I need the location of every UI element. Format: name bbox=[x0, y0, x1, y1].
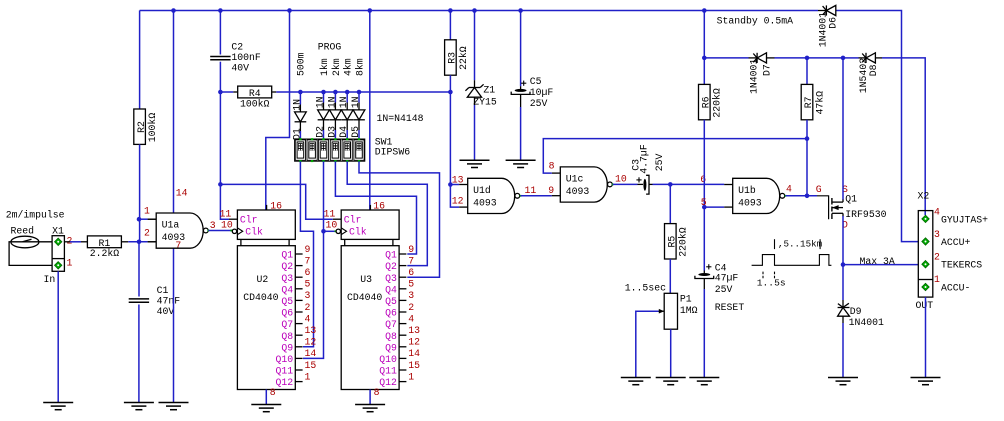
node diode columns on prog row bbox=[298, 90, 303, 95]
svg-text:D7: D7 bbox=[762, 64, 773, 76]
wire D7 to R7 node bbox=[775, 57, 808, 59]
svg-text:ZY15: ZY15 bbox=[473, 97, 497, 108]
svg-text:1N5402: 1N5402 bbox=[858, 58, 869, 93]
svg-text:1N: 1N bbox=[350, 96, 361, 108]
wire node to U1b pin 5 bbox=[704, 206, 724, 208]
wire P1 bottom to ground bbox=[670, 329, 672, 377]
wire Clr bus to U3 Clr pin 11 bbox=[220, 184, 332, 219]
svg-text:14: 14 bbox=[176, 187, 188, 198]
svg-text:6: 6 bbox=[700, 174, 706, 185]
wire rail to U1a pin 14 bbox=[173, 11, 175, 214]
pin U2 16 stub bbox=[266, 205, 268, 210]
svg-text:D8: D8 bbox=[868, 64, 879, 76]
svg-text:7: 7 bbox=[408, 255, 414, 266]
svg-text:Q8: Q8 bbox=[385, 331, 397, 342]
svg-text:R7: R7 bbox=[803, 96, 814, 108]
wire node to D7 bbox=[704, 57, 748, 59]
wire sw6 to U3 Q3 bbox=[359, 161, 440, 277]
pin U2 Q4 bbox=[295, 288, 302, 290]
svg-text:25V: 25V bbox=[530, 98, 548, 109]
svg-text:TEKERCS: TEKERCS bbox=[941, 260, 982, 271]
svg-text:4093: 4093 bbox=[162, 232, 186, 243]
wire rail to Z1 bbox=[474, 11, 476, 81]
svg-text:1N4001: 1N4001 bbox=[817, 12, 828, 47]
transistor Q1 IRF9530 P-MOSFET bbox=[817, 196, 829, 219]
pin U3 16 stub bbox=[369, 205, 371, 210]
ground Z1 bbox=[460, 159, 490, 161]
ground P1 wiper bbox=[621, 377, 651, 379]
wire node to U3 Clk bbox=[324, 230, 337, 232]
wire sw4 to U3 Q1 bbox=[335, 161, 416, 254]
svg-text:6: 6 bbox=[408, 267, 414, 278]
svg-text:Q5: Q5 bbox=[385, 296, 397, 307]
wire sw1 to U2 Q9 bbox=[300, 161, 313, 346]
IC U2 CD4040 header bbox=[237, 210, 295, 239]
svg-text:C4: C4 bbox=[715, 262, 727, 273]
pin U3 Q4 bbox=[399, 288, 406, 290]
svg-text:Q3: Q3 bbox=[281, 273, 293, 284]
wire drain node down to D9 bbox=[842, 265, 844, 300]
pin U3 Q8 bbox=[399, 334, 406, 336]
svg-text:ACCU+: ACCU+ bbox=[941, 237, 971, 248]
svg-text:R3: R3 bbox=[447, 52, 458, 64]
wire node to R7 bbox=[806, 58, 808, 85]
wire node to R6 bbox=[703, 58, 705, 85]
wire X1 pin1 to ground bbox=[57, 271, 59, 402]
pin P1 wiper arrow bbox=[659, 310, 665, 312]
node U1d pin13 bbox=[448, 182, 453, 187]
diode D6 1N4001 bbox=[818, 10, 826, 12]
svg-text:X1: X1 bbox=[52, 226, 64, 237]
connector X1 bbox=[52, 236, 64, 272]
pin U3 Q7 bbox=[399, 323, 406, 325]
pin X2-2 bbox=[922, 261, 929, 268]
wire C5 to ground bbox=[520, 107, 522, 160]
svg-text:40V: 40V bbox=[157, 306, 175, 317]
svg-text:13: 13 bbox=[408, 325, 420, 336]
potentiometer P1 1M bbox=[664, 293, 677, 329]
pin U3 8 stub / ground bbox=[369, 390, 371, 405]
ground U1a bbox=[159, 402, 189, 404]
svg-text:D5: D5 bbox=[350, 126, 361, 138]
diode D3 1N4148 bbox=[334, 92, 336, 103]
ground C5 bbox=[506, 159, 536, 161]
svg-text:Q10: Q10 bbox=[275, 354, 293, 365]
svg-text:Q12: Q12 bbox=[379, 377, 397, 388]
svg-text:D6: D6 bbox=[828, 17, 839, 29]
diode D7 1N4001 bbox=[749, 57, 758, 59]
svg-text:DIPSW6: DIPSW6 bbox=[375, 147, 410, 158]
wire to Q1 source node bbox=[807, 57, 843, 59]
pin U2 Q1 bbox=[295, 253, 302, 255]
svg-text:RESET: RESET bbox=[715, 302, 745, 313]
ground C1 bbox=[124, 402, 154, 404]
svg-text:2m/impulse: 2m/impulse bbox=[6, 210, 65, 221]
svg-text:2.2kΩ: 2.2kΩ bbox=[90, 248, 120, 259]
connector X2 bbox=[918, 211, 933, 298]
resistor R5 220k bbox=[665, 224, 677, 259]
svg-text:4: 4 bbox=[408, 313, 414, 324]
wire node down to C4 bbox=[703, 207, 705, 270]
svg-text:12: 12 bbox=[408, 337, 420, 348]
switch SW1 DIPSW6 bbox=[295, 139, 365, 161]
svg-text:Q11: Q11 bbox=[379, 366, 397, 377]
svg-text:25V: 25V bbox=[715, 284, 733, 295]
wire R7 down to feedback node bbox=[806, 120, 808, 139]
wire reed left lead loop to X1 pin1 bbox=[9, 242, 52, 266]
wire R6 down to U1b pin 5 node bbox=[703, 120, 705, 207]
node R4/C2 bbox=[218, 90, 223, 95]
svg-text:4093: 4093 bbox=[738, 197, 762, 208]
wire VCC top rail bbox=[140, 10, 818, 12]
svg-text:CD4040: CD4040 bbox=[347, 292, 382, 303]
svg-text:Q1: Q1 bbox=[281, 250, 293, 261]
svg-text:Max 3A: Max 3A bbox=[860, 256, 895, 267]
pin U3 Q1 bbox=[399, 253, 406, 255]
wire D9 to ground bbox=[842, 323, 844, 378]
svg-text:GYUJTAS+: GYUJTAS+ bbox=[941, 214, 988, 225]
wire Q1 source up to standby node bbox=[842, 58, 844, 200]
svg-text:Q1: Q1 bbox=[845, 194, 857, 205]
svg-text:47µF: 47µF bbox=[715, 273, 739, 284]
svg-text:Q12: Q12 bbox=[275, 377, 293, 388]
node C3/R5 bbox=[668, 182, 673, 187]
svg-text:2: 2 bbox=[305, 302, 311, 313]
IC U3 CD4040 header bbox=[341, 210, 399, 239]
svg-text:Q11: Q11 bbox=[275, 366, 293, 377]
diode D1 1N4148 bbox=[299, 92, 301, 105]
diode Z1 ZY15 zener bbox=[474, 80, 476, 87]
svg-text:U3: U3 bbox=[360, 274, 372, 285]
reed switch S1 bbox=[11, 236, 39, 248]
svg-text:2: 2 bbox=[934, 252, 940, 263]
svg-text:Q6: Q6 bbox=[281, 308, 293, 319]
svg-text:Q7: Q7 bbox=[385, 319, 397, 330]
svg-text:1N4001: 1N4001 bbox=[749, 59, 760, 94]
pin U2 Q2 bbox=[295, 265, 302, 267]
wire R1 to U1a pin 2 bbox=[128, 241, 147, 243]
svg-text:D2: D2 bbox=[315, 126, 326, 138]
wire C1 to ground bbox=[138, 305, 140, 403]
svg-text:4: 4 bbox=[934, 206, 940, 217]
pin U3 Q12 bbox=[399, 381, 406, 383]
svg-text:500m: 500m bbox=[295, 52, 306, 76]
svg-text:4093: 4093 bbox=[566, 186, 590, 197]
pin U3 Q3 bbox=[399, 276, 406, 278]
svg-text:1: 1 bbox=[408, 371, 414, 382]
node U1b out/gate bbox=[805, 194, 810, 199]
svg-text:40V: 40V bbox=[231, 63, 249, 74]
svg-text:Q5: Q5 bbox=[281, 296, 293, 307]
resistor R7 47k bbox=[801, 84, 813, 119]
svg-text:9: 9 bbox=[305, 244, 311, 255]
svg-text:ACCU-: ACCU- bbox=[941, 282, 970, 293]
svg-text:8km: 8km bbox=[354, 58, 365, 76]
svg-text:Q4: Q4 bbox=[385, 284, 397, 295]
node Clr bus bbox=[218, 182, 223, 187]
svg-text:D4: D4 bbox=[338, 126, 349, 138]
wire rail left end down to R2 bbox=[139, 11, 141, 110]
svg-text:1: 1 bbox=[934, 274, 940, 285]
node rail junctions bbox=[171, 8, 176, 13]
wire node to D8 bbox=[843, 57, 859, 59]
resistor R4 100k bbox=[233, 91, 237, 93]
svg-text:1MΩ: 1MΩ bbox=[680, 305, 698, 316]
wire to U1d pin 13 bbox=[450, 184, 459, 186]
pin X2-4 bbox=[922, 215, 929, 222]
svg-text:U1b: U1b bbox=[738, 185, 756, 196]
wire U1c output to C3 bbox=[612, 184, 614, 186]
resistor R2 100k bbox=[134, 109, 146, 144]
svg-text:1..5sec: 1..5sec bbox=[625, 282, 666, 293]
svg-text:1N: 1N bbox=[326, 96, 337, 108]
capacitor C1 47nF bbox=[129, 298, 149, 300]
svg-text:220kΩ: 220kΩ bbox=[712, 88, 723, 118]
svg-text:10µF: 10µF bbox=[530, 87, 554, 98]
IC U3 CD4040 body bbox=[341, 246, 399, 390]
wire C2 to R4 node bbox=[219, 62, 221, 92]
diode D9 1N4001 flyback bbox=[842, 300, 844, 308]
pin U3 Q9 bbox=[399, 346, 406, 348]
svg-text:12: 12 bbox=[305, 337, 317, 348]
svg-text:2: 2 bbox=[144, 228, 150, 239]
pin U2 Q11 bbox=[295, 369, 302, 371]
pin U3 Q5 bbox=[399, 299, 406, 301]
svg-text:4km: 4km bbox=[343, 58, 354, 76]
svg-text:2: 2 bbox=[408, 302, 414, 313]
wire node down to C1 bbox=[138, 242, 140, 297]
node U1a pin1 junction bbox=[137, 217, 142, 222]
svg-text:14: 14 bbox=[408, 348, 420, 359]
ground P1 bbox=[656, 377, 686, 379]
wire rail to C2 bbox=[219, 11, 221, 55]
svg-text:OUT: OUT bbox=[916, 300, 934, 311]
pin U2 Q7 bbox=[295, 323, 302, 325]
wire Q1 drain down to coil node bbox=[842, 216, 844, 265]
pin U3 Clr bbox=[333, 218, 341, 220]
svg-text:100nF: 100nF bbox=[231, 52, 261, 63]
svg-text:U2: U2 bbox=[257, 274, 269, 285]
svg-text:6: 6 bbox=[305, 267, 311, 278]
wire node to R5 bbox=[669, 184, 671, 223]
diode D5 1N4148 bbox=[358, 92, 360, 103]
svg-text:5: 5 bbox=[408, 279, 414, 290]
ground X2 bbox=[911, 377, 941, 379]
svg-text:X2: X2 bbox=[918, 190, 930, 201]
svg-text:IRF9530: IRF9530 bbox=[845, 209, 886, 220]
wire to U2 Clr pin 11 bbox=[220, 184, 229, 219]
pin X2-1 bbox=[922, 283, 929, 290]
wire U1d output to U1c pin 9 bbox=[520, 195, 522, 197]
svg-text:U1d: U1d bbox=[473, 185, 491, 196]
svg-text:10: 10 bbox=[615, 173, 627, 184]
wire node to U1a pin 1 bbox=[139, 218, 148, 220]
svg-text:Q8: Q8 bbox=[281, 331, 293, 342]
diode D8 1N5402 bbox=[859, 57, 867, 59]
wire R4 to diode-OR row / R3 bbox=[276, 91, 450, 93]
wire R2 bottom to U1a inputs node bbox=[139, 144, 141, 241]
svg-text:8: 8 bbox=[549, 161, 555, 172]
resistor R6 220k bbox=[699, 84, 711, 119]
svg-text:8: 8 bbox=[374, 387, 380, 398]
wire D8 to X2 pin 4 (GYUJTAS+) bbox=[882, 58, 925, 215]
pin U3 Q6 bbox=[399, 311, 406, 313]
node U1b pin5 bbox=[702, 205, 707, 210]
pin U2 Q8 bbox=[295, 334, 302, 336]
wire sw5 to U3 Q2 bbox=[347, 161, 427, 265]
svg-text:4: 4 bbox=[305, 313, 311, 324]
IC U2 CD4040 body bbox=[237, 246, 295, 390]
node Q1 source bbox=[841, 56, 846, 61]
wire C4 to ground bbox=[703, 289, 705, 378]
svg-text:5: 5 bbox=[305, 279, 311, 290]
svg-text:4: 4 bbox=[786, 183, 792, 194]
svg-text:12: 12 bbox=[452, 195, 464, 206]
ground C4 bbox=[689, 377, 719, 379]
svg-text:8: 8 bbox=[270, 387, 276, 398]
svg-text:2km: 2km bbox=[331, 58, 342, 76]
svg-text:Q10: Q10 bbox=[379, 354, 397, 365]
svg-text:R2: R2 bbox=[136, 121, 147, 133]
pin X1-1 bbox=[55, 262, 62, 269]
node R7/feedback bbox=[805, 136, 810, 141]
op U1a 4093 NAND bbox=[156, 213, 203, 248]
wire U1c pin8 feedback from U1b output bbox=[543, 139, 807, 174]
wire R5 to P1 bbox=[669, 259, 671, 293]
wire C2 node down to Clr bus bbox=[219, 92, 221, 184]
svg-text:Standby 0.5mA: Standby 0.5mA bbox=[717, 16, 794, 27]
capacitor C5 10uF electrolytic bbox=[520, 86, 522, 89]
wire sw3 to U2 Q10 and U3 Clk bbox=[303, 161, 324, 358]
wire node to R4 bbox=[220, 91, 233, 93]
capacitor C3 4.7uF electrolytic bbox=[643, 179, 646, 191]
svg-text:5: 5 bbox=[701, 197, 707, 208]
svg-text:1N: 1N bbox=[315, 96, 326, 108]
svg-text:3: 3 bbox=[934, 229, 940, 240]
svg-text:3: 3 bbox=[210, 220, 216, 231]
op U1b 4093 NAND bbox=[733, 178, 780, 213]
svg-text:In: In bbox=[44, 274, 56, 285]
wire node down to gate node bbox=[806, 139, 808, 196]
svg-text:Q1: Q1 bbox=[385, 250, 397, 261]
wire C3 to R5/U1b node bbox=[653, 183, 671, 185]
svg-text:U1a: U1a bbox=[162, 220, 180, 231]
svg-text:C2: C2 bbox=[231, 41, 243, 52]
svg-text:Q6: Q6 bbox=[385, 308, 397, 319]
wire drain node to X2 pin 2 (TEKERCS) bbox=[843, 264, 918, 266]
pin X2-3 bbox=[922, 238, 929, 245]
svg-text:G: G bbox=[816, 184, 822, 195]
ground X1 In bbox=[43, 402, 73, 404]
svg-text:1: 1 bbox=[305, 371, 311, 382]
svg-text:1N=N4148: 1N=N4148 bbox=[377, 113, 424, 124]
svg-text:R6: R6 bbox=[701, 96, 712, 108]
svg-text:PROG: PROG bbox=[318, 41, 342, 52]
svg-text:22kΩ: 22kΩ bbox=[458, 46, 469, 70]
pin U2 Clk bbox=[232, 229, 236, 233]
node D7/R6 bbox=[702, 56, 707, 61]
svg-text:11: 11 bbox=[525, 185, 537, 196]
svg-text:10: 10 bbox=[326, 220, 338, 231]
svg-text:1: 1 bbox=[67, 258, 73, 269]
diode D4 1N4148 bbox=[346, 92, 348, 103]
wire R3 node down to U1d inputs bbox=[449, 92, 451, 185]
pin U2 Q3 bbox=[295, 276, 302, 278]
svg-text:4.7µF: 4.7µF bbox=[638, 144, 649, 174]
node drain/TEKERCS bbox=[841, 262, 846, 267]
svg-text:1N: 1N bbox=[291, 99, 302, 111]
svg-text:Q9: Q9 bbox=[281, 342, 293, 353]
svg-text:13: 13 bbox=[305, 325, 317, 336]
svg-text:100kΩ: 100kΩ bbox=[147, 113, 158, 143]
pin U2 Q5 bbox=[295, 299, 302, 301]
svg-text:4093: 4093 bbox=[473, 197, 497, 208]
pin U2 Q10 bbox=[295, 357, 302, 359]
svg-text:25V: 25V bbox=[654, 154, 665, 172]
svg-text:1N4001: 1N4001 bbox=[849, 317, 884, 328]
svg-text:11: 11 bbox=[324, 209, 336, 220]
resistor R1 2.2k bbox=[81, 241, 88, 243]
svg-text:C1: C1 bbox=[157, 285, 169, 296]
wire rail to standby node bbox=[703, 11, 705, 58]
op U1d 4093 NAND bbox=[468, 178, 515, 213]
svg-text:14: 14 bbox=[305, 348, 317, 359]
svg-text:D3: D3 bbox=[326, 126, 337, 138]
svg-text:Q4: Q4 bbox=[281, 284, 293, 295]
svg-text:47kΩ: 47kΩ bbox=[814, 91, 825, 115]
svg-text:Clk: Clk bbox=[349, 227, 367, 238]
svg-text:1..5s: 1..5s bbox=[757, 278, 786, 289]
wire to U1d pin 12 bbox=[450, 185, 459, 208]
svg-text:15: 15 bbox=[305, 360, 317, 371]
capacitor C4 47uF electrolytic bbox=[703, 271, 705, 274]
svg-text:Clr: Clr bbox=[344, 215, 362, 226]
pin U2 Clr bbox=[229, 218, 237, 220]
svg-text:Reed: Reed bbox=[11, 226, 35, 237]
svg-text:Z1: Z1 bbox=[483, 85, 495, 96]
svg-text:Q9: Q9 bbox=[385, 342, 397, 353]
svg-text:1km: 1km bbox=[319, 58, 330, 76]
diode D2 1N4148 bbox=[323, 92, 325, 103]
wire U1a pin 7 to ground bbox=[173, 248, 175, 402]
resistor R3 22k bbox=[445, 40, 457, 75]
svg-text:11: 11 bbox=[220, 209, 232, 220]
svg-text:1: 1 bbox=[144, 205, 150, 216]
pin U2 Q12 bbox=[295, 381, 302, 383]
svg-text:3: 3 bbox=[305, 290, 311, 301]
svg-text:D9: D9 bbox=[850, 306, 862, 317]
svg-text:47nF: 47nF bbox=[157, 295, 181, 306]
svg-text:U1c: U1c bbox=[566, 174, 584, 185]
pin U3 Q10 bbox=[399, 357, 406, 359]
wire U1b output to Q1 gate bbox=[785, 195, 787, 197]
wire U1a output to U2 Clk bbox=[207, 230, 209, 232]
svg-text:7: 7 bbox=[305, 255, 311, 266]
wire X2 pin1 to ground bbox=[925, 297, 927, 377]
svg-text:10: 10 bbox=[221, 220, 233, 231]
wire Z1 to ground bbox=[474, 105, 476, 160]
pin U2 8 stub / ground bbox=[265, 390, 267, 405]
wire rail to U2 pin 16 (jog) bbox=[266, 11, 290, 211]
node U1a pin2 junction bbox=[137, 240, 142, 245]
svg-text:Q7: Q7 bbox=[281, 319, 293, 330]
pin U3 Q11 bbox=[399, 369, 406, 371]
wire P1 wiper to ground bbox=[636, 311, 659, 377]
svg-text:Q2: Q2 bbox=[281, 261, 293, 272]
pin U2 Q9 bbox=[295, 346, 302, 348]
svg-text:Q3: Q3 bbox=[385, 273, 397, 284]
capacitor C2 100nF bbox=[210, 56, 230, 58]
